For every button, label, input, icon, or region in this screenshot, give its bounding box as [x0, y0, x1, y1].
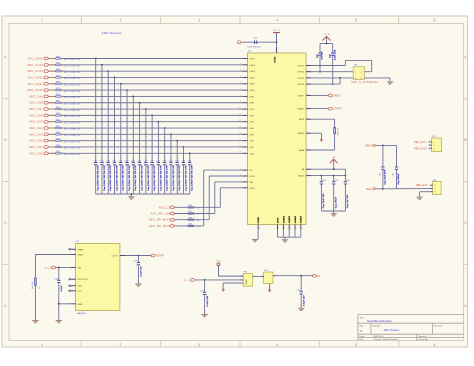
ruler row marks — [2, 55, 468, 308]
svg-text:Cap 100nF 16V 5% X7R: Cap 100nF 16V 5% X7R — [135, 165, 137, 191]
wire GPIO0 row — [311, 71, 353, 73]
svg-text:ADC_SPI_MOSI: ADC_SPI_MOSI — [149, 224, 171, 228]
wire ADC_SPI_MOSI — [174, 170, 242, 226]
port DGND left of C40 — [237, 41, 241, 44]
svg-text:Cap 100nF 16V 5% X7R: Cap 100nF 16V 5% X7R — [160, 165, 162, 191]
svg-text:Cap 100nF 16V 5% X7R: Cap 100nF 16V 5% X7R — [110, 165, 112, 191]
svg-text:File:: File: — [360, 339, 364, 341]
resistor R53 10k — [48, 113, 80, 118]
svg-text:GPIO2: GPIO2 — [298, 84, 305, 86]
power +5VA — [216, 260, 243, 276]
svg-text:1: 1 — [355, 72, 356, 74]
svg-text:10k 1/10W 1%: 10k 1/10W 1% — [64, 154, 81, 156]
resistor R48 10k — [48, 145, 80, 150]
wire AGND pin — [311, 133, 321, 138]
wire ADC_CH2 row — [49, 140, 243, 142]
capacitor C34 — [200, 280, 209, 314]
svg-text:VA: VA — [317, 274, 321, 278]
svg-text:ADC_CH1: ADC_CH1 — [29, 145, 43, 149]
wire DGND — [257, 230, 259, 239]
svg-text:DVDD: DVDD — [275, 56, 277, 62]
capacitor C47 — [393, 145, 400, 188]
wire ADC_CH4 row — [49, 127, 243, 129]
junction node CH7 — [145, 108, 147, 110]
svg-text:0.1uF X7R: 0.1uF X7R — [334, 49, 336, 60]
svg-text:AGND3: AGND3 — [294, 215, 297, 223]
svg-text:GND: GND — [77, 304, 82, 306]
ground C35 — [298, 308, 304, 310]
port ADC_CH12 — [27, 75, 48, 79]
junction node CH1 — [183, 146, 185, 148]
svg-text:1: 1 — [308, 148, 309, 150]
wire AINP loop — [311, 119, 335, 127]
resistor R76 thermistor — [32, 278, 41, 289]
svg-text:1: 1 — [308, 64, 309, 66]
wire CH9 filter drop — [132, 96, 134, 161]
U4 left pin names — [249, 58, 256, 189]
svg-text:R74 10k: R74 10k — [338, 128, 340, 135]
svg-text:DIN: DIN — [249, 182, 253, 184]
capacitor C26 — [106, 161, 112, 194]
resistor R60 10k — [48, 69, 80, 74]
junction node CH2 — [176, 140, 178, 142]
port ADC_CH15 — [27, 57, 48, 61]
svg-text:V OUT: V OUT — [111, 256, 118, 258]
wire C41 C42 top rail — [320, 43, 333, 45]
svg-text:10k 1/10W 1%: 10k 1/10W 1% — [64, 91, 81, 93]
svg-text:11: 11 — [239, 114, 241, 116]
wire ADC_CH0 row — [49, 152, 243, 154]
svg-text:MAX6610: MAX6610 — [77, 312, 87, 315]
ground JP2 arrow — [268, 288, 272, 292]
svg-text:10k 1/10W 1%: 10k 1/10W 1% — [64, 59, 81, 61]
svg-text:VCC_5: VCC_5 — [183, 280, 191, 282]
svg-text:4: 4 — [277, 343, 279, 347]
svg-text:ADC_CH4: ADC_CH4 — [29, 126, 43, 130]
capacitor C43 — [320, 176, 327, 211]
svg-text:CLKIO: CLKIO — [298, 65, 305, 67]
ground C34 — [201, 315, 207, 317]
U2 pin stubs — [71, 249, 125, 303]
svg-text:START: START — [333, 107, 343, 111]
svg-text:4: 4 — [277, 19, 279, 23]
wire U2 GND2 — [35, 255, 70, 321]
svg-text:TEMP: TEMP — [156, 254, 164, 258]
svg-text:Revision: Revision — [434, 325, 443, 327]
svg-text:10k 1/10W 1%: 10k 1/10W 1% — [64, 141, 81, 143]
svg-text:10k 1/10W 1%: 10k 1/10W 1% — [64, 78, 81, 80]
svg-text:B: B — [4, 138, 6, 142]
resistor R72 0R — [188, 217, 200, 222]
wire U2 VIN — [56, 267, 71, 269]
svg-text:4: 4 — [361, 78, 362, 80]
capacitor C42 — [329, 44, 337, 85]
svg-text:10k 1/10W 1%: 10k 1/10W 1% — [64, 122, 81, 124]
svg-text:14: 14 — [239, 133, 241, 135]
svg-text:C41: C41 — [316, 54, 319, 58]
svg-text:Cap 100nF 16V 5% X7R: Cap 100nF 16V 5% X7R — [141, 165, 143, 191]
svg-text:1: 1 — [308, 76, 309, 78]
jumper JP2 — [261, 270, 275, 284]
capacitor C35 — [296, 276, 305, 308]
svg-text:Cap 100nF: Cap 100nF — [336, 196, 338, 208]
port ADC_CH14 — [27, 63, 48, 67]
capacitor C29 — [125, 161, 131, 194]
resistor R62 10k — [48, 56, 80, 61]
resistor R70 0R — [188, 205, 200, 210]
capacitor C27 — [112, 161, 118, 194]
resistor R50 10k — [48, 132, 80, 137]
svg-text:BEAD: BEAD — [245, 279, 248, 285]
svg-text:1: 1 — [308, 117, 309, 119]
svg-text:1: 1 — [308, 82, 309, 84]
op-amp U4 ADS1158 body — [248, 51, 307, 225]
wire CH12 filter drop — [114, 77, 116, 161]
U4 top pin DVDD — [276, 48, 278, 54]
net label ADC_SPI_MISO — [149, 218, 174, 222]
svg-text:C42: C42 — [329, 54, 332, 58]
svg-text:GPIO1: GPIO1 — [298, 78, 305, 80]
wire JP2 out — [273, 275, 313, 277]
svg-text:0.1uF: 0.1uF — [61, 285, 63, 292]
junction node CH0 — [189, 152, 191, 154]
capacitor C34 — [156, 161, 162, 194]
wire REF+ rail — [375, 144, 396, 146]
svg-text:ADC_CH2: ADC_CH2 — [29, 139, 43, 143]
svg-text:ADC_CH5: ADC_CH5 — [29, 120, 43, 124]
port REF_EXT+ — [414, 141, 427, 144]
capacitor C44 — [332, 176, 339, 211]
capacitor C41 — [316, 44, 324, 72]
svg-text:3: 3 — [434, 148, 435, 150]
junction node CH11 — [120, 83, 122, 85]
net label ADC_SPI_MOSI — [149, 224, 174, 228]
svg-text:AINM: AINM — [299, 149, 305, 152]
svg-text:Date:: Date: — [360, 335, 365, 338]
capacitor C37 — [175, 161, 181, 194]
U4 left pin stubs — [240, 59, 248, 189]
svg-text:ADC_CH15: ADC_CH15 — [27, 57, 43, 61]
wire JP1 to ground — [364, 78, 390, 81]
capacitor C45 — [344, 176, 351, 211]
svg-text:2: 2 — [302, 228, 303, 230]
svg-text:CH11: CH11 — [249, 84, 255, 86]
svg-text:Cap 100nF 16V 5% X7R: Cap 100nF 16V 5% X7R — [167, 165, 169, 191]
svg-text:10k 1/10W 1%: 10k 1/10W 1% — [64, 66, 81, 68]
capacitor C31 — [137, 161, 143, 194]
svg-text:Cap 100nF 16V 5% X7R: Cap 100nF 16V 5% X7R — [123, 165, 125, 191]
svg-text:1: 1 — [308, 94, 309, 96]
ruler column marks — [41, 16, 436, 347]
capacitor C36 — [169, 161, 175, 194]
resistor R61 10k — [48, 63, 80, 68]
svg-text:REF_EXT0: REF_EXT0 — [414, 147, 427, 150]
wire START — [311, 108, 329, 110]
svg-text:0.1uF X7R 10%: 0.1uF X7R 10% — [248, 46, 262, 48]
title block text — [360, 317, 444, 342]
junction node CH4 — [164, 127, 166, 129]
svg-text:REF-: REF- — [366, 187, 372, 191]
wire VA rail — [311, 169, 345, 175]
svg-text:1%: 1% — [39, 286, 41, 289]
svg-text:DRDY: DRDY — [333, 93, 341, 97]
svg-text:AGND4: AGND4 — [300, 215, 303, 223]
capacitor C32 — [143, 161, 149, 194]
port REF_EXT- — [416, 184, 428, 187]
svg-text:Cap 100nF 16V 5% X7R: Cap 100nF 16V 5% X7R — [185, 165, 187, 191]
svg-text:CH15: CH15 — [249, 58, 255, 60]
port ADC_CH9 — [29, 94, 48, 98]
svg-text:2: 2 — [361, 72, 362, 74]
resistor R71 0R — [188, 211, 200, 216]
wire ADC_CH8 row — [49, 102, 243, 104]
svg-text:DOUT: DOUT — [249, 188, 256, 190]
wire CH4 filter drop — [164, 128, 166, 161]
wire U2 VOUT — [125, 255, 151, 257]
svg-text:Cap 10uF 25V: Cap 10uF 25V — [384, 169, 386, 184]
svg-text:DRDY: DRDY — [298, 95, 305, 97]
svg-text:10k 1/10W 1%: 10k 1/10W 1% — [64, 129, 81, 131]
svg-text:1: 1 — [434, 142, 435, 144]
wire ADC_CH5 row — [49, 121, 243, 123]
svg-text:VCC_A: VCC_A — [323, 33, 330, 36]
svg-text:REF_EXT-: REF_EXT- — [416, 184, 428, 187]
svg-text:2: 2 — [290, 228, 291, 230]
jumper JP3 — [429, 136, 442, 151]
svg-text:Number: Number — [373, 324, 381, 327]
svg-text:ADC System: ADC System — [384, 328, 401, 332]
wire filter ground bus — [96, 193, 190, 195]
svg-text:2: 2 — [259, 228, 260, 230]
port ADC_CH5 — [29, 120, 48, 124]
svg-text:ADC_CH11: ADC_CH11 — [28, 82, 44, 86]
wire CH10 filter drop — [126, 90, 128, 161]
svg-text:2: 2 — [435, 188, 436, 190]
svg-text:ADC_CH14: ADC_CH14 — [27, 63, 43, 67]
wire CH11 filter drop — [120, 84, 122, 162]
capacitor C35 — [162, 161, 168, 194]
svg-text:AGND1: AGND1 — [282, 215, 285, 223]
svg-text:AGND: AGND — [298, 132, 305, 135]
capacitor C30 — [131, 161, 137, 194]
svg-text:ADC_CS: ADC_CS — [159, 205, 171, 209]
svg-text:10k 1/10W 1%: 10k 1/10W 1% — [64, 148, 81, 150]
port START — [328, 107, 342, 111]
svg-text:DNC: DNC — [77, 286, 82, 288]
svg-text:GPIO0: GPIO0 — [298, 72, 305, 74]
wire filter input — [195, 279, 244, 281]
svg-text:Cap 100nF 16V 5% X7R: Cap 100nF 16V 5% X7R — [179, 165, 181, 191]
port VA out — [312, 274, 320, 278]
svg-text:VCC_5: VCC_5 — [44, 268, 52, 270]
svg-text:2: 2 — [240, 57, 241, 59]
junction node CH6 — [151, 114, 153, 116]
resistor R55 10k — [48, 101, 80, 106]
wire ADC_CH10 row — [49, 89, 243, 91]
ground filter bank — [130, 194, 132, 196]
svg-text:10k 1/10W 1%: 10k 1/10W 1% — [64, 116, 81, 118]
wire ADC_CH3 row — [49, 133, 243, 135]
svg-text:1: 1 — [41, 19, 43, 23]
wire ADC_CH11 row — [49, 83, 243, 85]
svg-text:ADC_SPI_MISO: ADC_SPI_MISO — [149, 218, 171, 222]
wire JP4 gnd — [420, 192, 430, 197]
junction C41 row crossings — [319, 65, 334, 85]
resistor R47 10k — [48, 151, 80, 156]
svg-text:10k 1/10W 1%: 10k 1/10W 1% — [64, 110, 81, 112]
svg-text:Sheet of: Sheet of — [419, 335, 427, 338]
wire ADC_CH7 row — [49, 108, 243, 110]
svg-text:SmartPumpSystem: SmartPumpSystem — [367, 319, 392, 323]
capacitor C40 0.1uF — [248, 38, 262, 49]
wire CH6 filter drop — [151, 115, 153, 161]
resistor R59 10k — [48, 75, 80, 80]
jumper JP4 — [430, 180, 441, 195]
wire AGND bus — [278, 230, 301, 240]
svg-text:3: 3 — [240, 63, 241, 65]
wire ADC_CH12 row — [49, 76, 243, 78]
wire CH14 filter drop — [101, 65, 103, 162]
resistor R49 10k — [48, 138, 80, 143]
svg-text:ADC_CH0: ADC_CH0 — [29, 151, 43, 155]
svg-text:6: 6 — [434, 343, 436, 347]
resistor R52 10k — [48, 120, 80, 125]
power VCC_A — [322, 33, 330, 43]
net label ADC_CS — [159, 205, 175, 209]
ground JP1 — [387, 82, 393, 84]
svg-text:3: 3 — [198, 19, 200, 23]
junction node CH12 — [114, 77, 116, 79]
svg-text:ADC_CH9: ADC_CH9 — [29, 94, 43, 98]
svg-text:3: 3 — [355, 78, 356, 80]
svg-text:2: 2 — [240, 180, 241, 182]
port ADC_CH10 — [27, 88, 48, 92]
capacitor C39 — [187, 161, 193, 194]
wire ADC_CS — [174, 188, 242, 208]
no-connect marks — [69, 248, 71, 291]
svg-text:2: 2 — [284, 228, 285, 230]
svg-text:VCC: VCC — [77, 291, 82, 293]
svg-text:SCLK: SCLK — [249, 176, 255, 178]
wire ADC_CH6 row — [49, 114, 243, 116]
svg-text:Res 10k: Res 10k — [32, 282, 34, 289]
jumper JP1 — [353, 65, 364, 80]
wire CH8 filter drop — [139, 103, 141, 162]
wire ADC_CH13 row — [49, 70, 243, 72]
wire CH2 filter drop — [176, 141, 178, 162]
wire GPIO2 row — [311, 78, 340, 84]
svg-text:1: 1 — [41, 343, 43, 347]
port ADC_CH11 — [28, 82, 49, 86]
capacitor C28 — [118, 161, 124, 194]
wire CLKIO loop — [311, 60, 372, 71]
port VCC_5 filter — [183, 279, 194, 283]
junction DVDD — [276, 41, 278, 43]
port TEMP_AD — [151, 254, 164, 258]
svg-text:2: 2 — [120, 343, 122, 347]
svg-text:2: 2 — [278, 228, 279, 230]
svg-text:DGND: DGND — [258, 217, 260, 224]
resistor R73 0R — [188, 224, 200, 229]
ground JP4 — [416, 197, 422, 199]
net label ADC_SPI_CLK — [151, 212, 175, 216]
wire FB1 agnd — [223, 283, 243, 288]
svg-text:15: 15 — [239, 139, 241, 141]
wire DVDD pin drop — [276, 42, 278, 47]
svg-text:9: 9 — [240, 101, 241, 103]
svg-text:AVDD: AVDD — [298, 175, 304, 178]
svg-text:ADC_CH7: ADC_CH7 — [29, 107, 43, 111]
capacitor C36 — [54, 268, 63, 304]
port ADC_CH13 — [27, 69, 48, 73]
U4 right pin stubs — [306, 64, 311, 176]
svg-text:Drawn By:: Drawn By: — [419, 338, 429, 341]
svg-text:CH12: CH12 — [249, 77, 255, 79]
capacitor C38 — [181, 161, 187, 194]
title block frame — [358, 315, 464, 341]
svg-text:ADC System: ADC System — [102, 31, 122, 35]
ground AGND — [282, 240, 288, 242]
wire CH7 filter drop — [145, 109, 147, 161]
svg-text:3: 3 — [198, 343, 200, 347]
svg-text:1: 1 — [308, 70, 309, 72]
junction node CH8 — [139, 102, 141, 104]
port REF+ — [365, 143, 375, 147]
wire CH0 filter drop — [189, 153, 191, 161]
svg-text:VIN: VIN — [77, 267, 81, 269]
port +5V U2 — [44, 266, 55, 269]
svg-text:7: 7 — [240, 88, 241, 90]
svg-text:0.1uF 1%: 0.1uF 1% — [141, 266, 143, 276]
svg-text:6: 6 — [434, 19, 436, 23]
resistor R51 10k — [48, 126, 80, 131]
svg-text:ADC_CH12: ADC_CH12 — [27, 75, 43, 79]
svg-text:ADC_CH6: ADC_CH6 — [29, 113, 43, 117]
svg-text:10k 1/10W 1%: 10k 1/10W 1% — [64, 84, 81, 86]
wire GPIO1 row — [311, 77, 353, 79]
svg-text:12: 12 — [239, 120, 241, 122]
svg-text:5: 5 — [240, 76, 241, 78]
ground AVDD caps — [331, 214, 337, 216]
ground AGND arrow — [320, 138, 324, 142]
svg-text:Cap 100nF 16V 5% X7R: Cap 100nF 16V 5% X7R — [148, 165, 150, 191]
wire DRDY — [311, 94, 329, 96]
svg-text:10: 10 — [239, 107, 241, 109]
wire CH13 filter drop — [107, 71, 109, 161]
port ADC_CH1 — [29, 145, 48, 149]
svg-text:GND2: GND2 — [77, 254, 84, 256]
svg-text:1: 1 — [435, 185, 436, 187]
svg-text:C47: C47 — [393, 173, 395, 176]
U4 bottom pin stubs — [258, 225, 303, 230]
port ADC_CH2 — [29, 139, 48, 143]
svg-text:4: 4 — [240, 69, 241, 71]
svg-text:6: 6 — [240, 82, 241, 84]
capacitor C33 — [150, 161, 156, 194]
port ADC_CH4 — [29, 126, 48, 130]
svg-text:2: 2 — [240, 186, 241, 188]
svg-text:16: 16 — [239, 145, 241, 147]
junction node CH10 — [126, 89, 128, 91]
capacitor C37 — [134, 256, 143, 284]
wire CH3 filter drop — [170, 134, 172, 161]
U2 pin names — [77, 249, 118, 306]
wire FB1-JP2 — [253, 275, 264, 277]
wire CH1 filter drop — [182, 147, 184, 161]
port ADC_CH8 — [29, 101, 48, 105]
ground U2 C36 — [56, 321, 62, 323]
svg-text:2: 2 — [240, 168, 241, 170]
